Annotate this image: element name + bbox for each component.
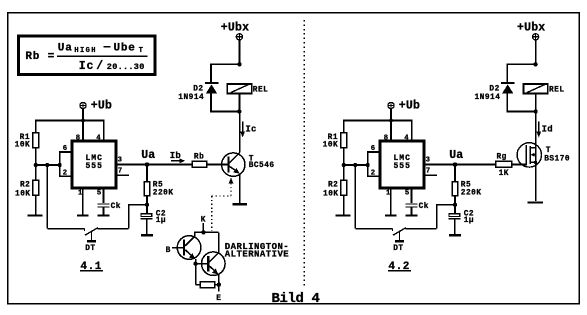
wire resistor to E node [215, 284, 219, 286]
wire +Ubx down to top node [238, 40, 240, 64]
node relay bottom (right) [533, 109, 537, 113]
svg-text:Ib: Ib [170, 151, 181, 161]
resistor R5 [144, 182, 150, 196]
+Ubx supply symbol left [236, 34, 242, 40]
wire pin 6 horizontal (right) [367, 151, 380, 153]
wire bottom to relay node (right) [507, 111, 535, 113]
dotted link arrow up [229, 178, 234, 196]
svg-text:+Ub: +Ub [91, 99, 112, 112]
wire Ck bottom (right) [410, 207, 412, 214]
node junction under +Ub (right) [389, 118, 393, 122]
resistor Rb [192, 161, 206, 167]
switch DT contact tick [84, 229, 86, 231]
node DT branch [45, 163, 49, 167]
label 4.1 underlined [80, 261, 103, 273]
+Ubx supply symbol right [533, 34, 539, 40]
node relay top (right) [533, 62, 537, 66]
wire bottom to relay node [211, 111, 239, 113]
wire DT rail right segment (right) [406, 228, 437, 230]
divider dotted line between circuit 4.1 and 4.2 [303, 20, 305, 288]
transistor Q1 (darlington first) [177, 236, 201, 260]
svg-text:3: 3 [118, 156, 122, 164]
wire pin 7 stub [116, 174, 129, 176]
node R1/R2 junction (right) [342, 163, 346, 167]
wire R1 bottom to junction row [35, 148, 37, 165]
wire R5 bottom to node [146, 196, 148, 205]
node bracket junction (right) [366, 163, 370, 167]
wire +Ubx down to top node (right) [535, 40, 537, 64]
wire diode branch lower [210, 93, 212, 112]
node K junction [201, 230, 205, 234]
node bracket junction [58, 163, 62, 167]
wire pin 8 vertical (right) [390, 121, 392, 142]
ground under BC546 emitter [232, 203, 247, 205]
wire pin 3 output horizontal [116, 164, 192, 166]
wire rail down to R1 (right) [343, 120, 345, 133]
node E tick [218, 285, 220, 292]
svg-text:R5: R5 [153, 181, 163, 189]
svg-text:/: / [96, 60, 103, 73]
svg-text:Id: Id [542, 124, 553, 134]
diode D2 triangle (right) [502, 84, 513, 93]
svg-text:Ck: Ck [111, 203, 121, 211]
dotted link vertical to K [211, 196, 213, 231]
switch DT lever [85, 228, 98, 236]
wire junction row horizontal (right) [344, 164, 368, 166]
svg-text:1N914: 1N914 [475, 94, 501, 102]
svg-text:DT: DT [393, 245, 403, 253]
wire diode branch lower (right) [506, 93, 508, 112]
diode D2 cathode bar (right) [501, 82, 514, 84]
svg-text:6: 6 [371, 145, 375, 153]
svg-text:Ic: Ic [79, 60, 94, 73]
wire C2 top (right) [454, 205, 456, 214]
svg-text:1N914: 1N914 [178, 94, 204, 102]
capacitor C2 polarized plates (right) [449, 214, 461, 219]
resistor Rg [496, 161, 512, 167]
wire Ua down to R5 (right) [454, 165, 456, 182]
svg-text:3: 3 [426, 156, 430, 164]
svg-text:10K: 10K [323, 141, 339, 149]
svg-text:555: 555 [393, 162, 410, 171]
ground under BS170 source [527, 201, 543, 203]
switch DT actuator [87, 232, 96, 242]
svg-text:7: 7 [426, 168, 430, 176]
formula box for Rb [19, 36, 156, 75]
node relay top [237, 62, 241, 66]
svg-text:7: 7 [118, 168, 122, 176]
wire Q1 collector riser [194, 232, 196, 237]
wire relay bottom [238, 94, 240, 112]
svg-text:1µ: 1µ [464, 217, 474, 225]
ground under R2 [28, 214, 43, 216]
svg-text:1: 1 [78, 189, 83, 197]
svg-text:HIGH: HIGH [74, 47, 96, 55]
label Ib with arrow [170, 151, 185, 163]
resistor (darlington emitter) [200, 282, 215, 288]
svg-text:10K: 10K [323, 191, 339, 199]
svg-text:10K: 10K [15, 191, 31, 199]
wire Rg to gate [512, 164, 528, 166]
node R5/C2/DT [145, 202, 149, 206]
dotted link horizontal [212, 195, 231, 197]
wire Ua to Rg (right) [455, 164, 496, 166]
ground under Ck [97, 214, 109, 216]
svg-text:220K: 220K [153, 190, 174, 198]
svg-text:Ic: Ic [245, 124, 256, 134]
node Ua [145, 162, 149, 166]
node R1/R2 junction [34, 163, 38, 167]
svg-text:Ube: Ube [114, 42, 136, 54]
svg-text:R2: R2 [20, 181, 30, 189]
svg-text:Rb =: Rb = [25, 51, 55, 63]
diode D2 triangle [206, 84, 217, 93]
wire bottom left segment [196, 284, 201, 286]
wire pin 6 horizontal [59, 151, 72, 153]
wire Q2 base [195, 259, 197, 264]
svg-text:1K: 1K [499, 170, 509, 178]
ground under Ck (right) [405, 214, 417, 216]
wire pin 3 output horizontal (right) [424, 164, 496, 166]
wire source down [535, 162, 537, 201]
wire pin 5 vertical (right) [410, 188, 412, 203]
capacitor Ck plates (right) [406, 204, 418, 207]
svg-text:Rg: Rg [497, 154, 507, 162]
wire Ck bottom [102, 207, 104, 214]
svg-text:+Ubx: +Ubx [517, 22, 545, 35]
wire C2 top [146, 205, 148, 214]
svg-text:BS170: BS170 [544, 156, 570, 164]
ground under C2 [141, 234, 153, 236]
wire B to Q1 base [172, 247, 183, 249]
wire bracket vertical pins 6-2 [59, 152, 61, 176]
svg-text:R5: R5 [461, 181, 471, 189]
relay REL coil box right [524, 84, 548, 94]
resistor R1 [33, 133, 39, 148]
node Ua (right) [453, 162, 457, 166]
wire pin 4 vertical [103, 120, 105, 141]
wire junction to R2 [35, 165, 37, 180]
label Id with arrow [536, 122, 552, 138]
wire pin 5 vertical [102, 188, 104, 203]
svg-text:Ua: Ua [58, 42, 73, 54]
wire C2 bottom [146, 219, 148, 234]
wire C2 bottom (right) [454, 219, 456, 234]
wire DT rail left segment [47, 228, 84, 230]
wire relay bottom (right) [535, 94, 537, 112]
wire node left and down to DT rail (right) [437, 205, 455, 229]
svg-text:Rb: Rb [194, 154, 204, 162]
svg-text:1µ: 1µ [156, 217, 166, 225]
wire junction to R2 (right) [343, 165, 345, 180]
svg-text:REL: REL [253, 87, 269, 95]
wire bracket vertical pins 6-2 (right) [367, 152, 369, 176]
wire pin 7 stub (right) [424, 174, 437, 176]
node relay bottom [237, 109, 241, 113]
svg-text:D2: D2 [489, 85, 499, 93]
svg-text:Ck: Ck [419, 203, 429, 211]
wire pin 1 vertical (right) [390, 188, 392, 214]
wire rail down to R1 [35, 120, 37, 133]
switch DT actuator (right) [395, 232, 404, 242]
label Ic with arrow [240, 122, 256, 138]
wire darlington top rail [195, 231, 219, 233]
wire from +Ub symbol down (right) [390, 109, 392, 121]
svg-text:B: B [166, 247, 171, 255]
capacitor Ck plates [98, 204, 110, 207]
switch DT contact tick (right) [392, 229, 394, 231]
wire junction row horizontal [36, 164, 60, 166]
timer IC U2 LMC555 box [380, 141, 424, 188]
svg-text:220K: 220K [461, 190, 482, 198]
svg-text:Ua: Ua [141, 149, 155, 162]
wire DT branch vertical down (right) [354, 165, 356, 229]
wire Q2 emitter down [218, 274, 220, 285]
wire R5 bottom to node (right) [454, 196, 456, 205]
node E junction [217, 283, 221, 287]
svg-text:6: 6 [63, 145, 67, 153]
wire Rb to transistor base [207, 164, 228, 166]
wire DT rail left segment (right) [355, 228, 392, 230]
wire diode branch upper [210, 63, 212, 82]
ground pin 1 (right) [385, 214, 397, 216]
+Ub supply symbol right [388, 102, 394, 108]
node K tick [202, 223, 204, 232]
svg-text:DT: DT [85, 245, 95, 253]
wire Q2 collector riser [218, 232, 220, 253]
wire drain vertical [535, 112, 537, 148]
+Ub supply symbol left [80, 102, 86, 108]
node junction under +Ub [81, 118, 85, 122]
wire node down left leg [195, 264, 197, 285]
wire R1 bottom to junction row (right) [343, 148, 345, 165]
svg-text:BC546: BC546 [249, 162, 275, 170]
node DT branch (right) [353, 163, 357, 167]
wire top to diode branch [211, 63, 239, 65]
wire DT rail right segment [98, 228, 129, 230]
svg-text:Ua: Ua [449, 149, 463, 162]
resistor R5 (right) [452, 182, 458, 196]
relay REL coil box left [227, 84, 251, 94]
wire pin 1 vertical [82, 188, 84, 214]
node Q1 emitter / Q2 base [193, 262, 197, 266]
svg-text:555: 555 [85, 162, 102, 171]
svg-text:10K: 10K [15, 141, 31, 149]
svg-text:T: T [546, 147, 551, 155]
transistor T BC546 [222, 153, 245, 177]
svg-text:Bild 4: Bild 4 [272, 291, 320, 307]
svg-text:R2: R2 [328, 181, 338, 189]
wire top to diode branch (right) [507, 63, 535, 65]
wire node left and down to DT rail [129, 205, 147, 229]
svg-text:5: 5 [405, 189, 409, 197]
wire collector vertical [239, 112, 241, 153]
transistor T BS170 mosfet [517, 143, 541, 167]
wire pin 4 vertical (right) [411, 120, 413, 141]
svg-text:T: T [139, 47, 143, 55]
label 4.2 underlined [388, 261, 411, 273]
svg-text:REL: REL [549, 87, 565, 95]
svg-text:D2: D2 [193, 85, 203, 93]
wire top rail horizontal (right) [344, 120, 412, 122]
svg-text:2: 2 [371, 170, 375, 178]
wire top rail horizontal [36, 120, 104, 122]
svg-text:ALTERNATIVE: ALTERNATIVE [225, 249, 290, 259]
wire Ua down to R5 [146, 165, 148, 182]
wire R2 bottom (right) [343, 195, 345, 215]
op-amp/timer IC U1 LMC555 box [72, 141, 116, 188]
svg-text:E: E [216, 295, 221, 303]
wire R2 bottom [35, 195, 37, 215]
wire from +Ub symbol down [82, 109, 84, 121]
diode D2 cathode bar [205, 82, 218, 84]
capacitor C2 polarized plates [141, 214, 153, 219]
ground under C2 (right) [449, 234, 461, 236]
resistor R2 (right) [341, 180, 347, 195]
switch DT lever (right) [393, 228, 406, 236]
svg-text:+Ub: +Ub [399, 99, 420, 112]
wire emitter down [239, 173, 241, 203]
svg-text:2: 2 [63, 170, 67, 178]
svg-text:+Ubx: +Ubx [221, 22, 249, 35]
wire diode branch upper (right) [506, 63, 508, 82]
ground pin 1 [77, 214, 89, 216]
resistor R2 [33, 180, 39, 195]
ground under R2 (right) [336, 214, 351, 216]
resistor R1 (right) [341, 133, 347, 148]
svg-text:20...30: 20...30 [107, 62, 145, 72]
node R5/C2/DT (right) [453, 202, 457, 206]
wire pin 2 horizontal [59, 175, 72, 177]
svg-text:5: 5 [97, 189, 101, 197]
wire pin 8 vertical [82, 121, 84, 142]
wire pin 2 horizontal (right) [367, 175, 380, 177]
wire DT branch vertical down [46, 165, 48, 229]
transistor Q2 (darlington second) [202, 252, 226, 276]
svg-text:1: 1 [386, 189, 391, 197]
